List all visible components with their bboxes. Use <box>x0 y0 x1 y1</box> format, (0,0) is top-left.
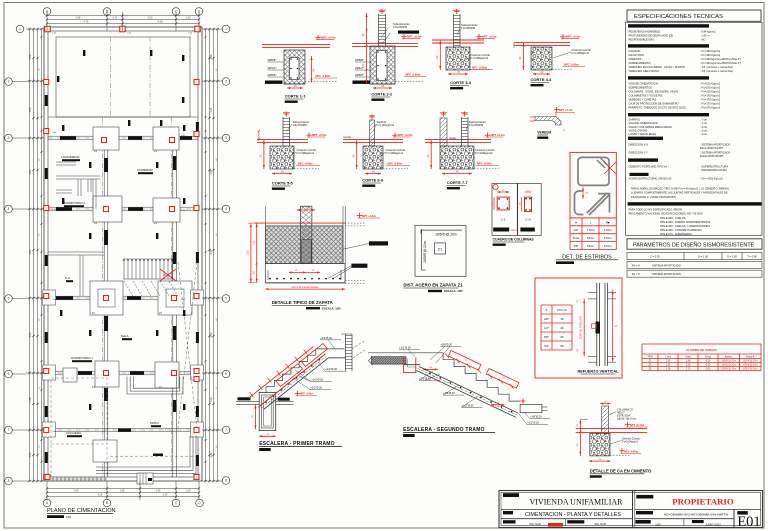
left dimension lines <box>26 28 44 482</box>
svg-text:1.20: 1.20 <box>186 17 191 20</box>
detail ESCALERA SEGUNDO TRAMO <box>368 342 550 437</box>
svg-text:3.60: 3.60 <box>29 249 32 254</box>
svg-text:NFC -0.80m: NFC -0.80m <box>298 162 313 166</box>
svg-text:huella: huella <box>449 137 456 140</box>
svg-text:3/8": 3/8" <box>573 244 578 248</box>
interior partition walls misc <box>48 50 197 484</box>
svg-text:2.85: 2.85 <box>210 169 213 174</box>
svg-text:: SISTEMA APORTICADO: : SISTEMA APORTICADO <box>700 143 730 147</box>
svg-text:: F'c=100 kg/cm2+25%P.M.(Max: : F'c=100 kg/cm2+25%P.M.(Max 3") <box>700 61 741 65</box>
svg-text:E01: E01 <box>737 514 760 530</box>
svg-text:: F'c=100 Kg/cmq: : F'c=100 Kg/cmq <box>700 49 721 53</box>
svg-text:2.0cm: 2.0cm <box>604 228 612 232</box>
svg-text:6: 6 <box>8 372 10 376</box>
svg-text:NFC -0.80m: NFC -0.80m <box>564 63 579 67</box>
svg-text:NFC -0.80m: NFC -0.80m <box>472 66 487 70</box>
svg-text:Acero L: Acero L <box>725 356 734 359</box>
detail DETALLE DE CA EN CIMIENTO <box>576 401 652 477</box>
svg-text:ESPECIFICACIONES TECNICAS: ESPECIFICACIONES TECNICAS <box>634 14 723 20</box>
svg-text:: F'c=175 Kg/cm2: : F'c=175 Kg/cm2 <box>700 101 721 105</box>
svg-text:2.28: 2.28 <box>210 397 213 402</box>
detail VEREDA <box>530 107 575 139</box>
box ESPECIFICACIONES TECNICAS header <box>627 10 761 21</box>
svg-text:NFC -0.80m: NFC -0.80m <box>316 74 331 78</box>
courtyard inner rect <box>48 37 198 117</box>
svg-text:NPT +0.10m: NPT +0.10m <box>630 424 645 427</box>
svg-text:2: 2 <box>8 80 10 84</box>
svg-text:: F'c=100 kg/cm2+30%P.G.(Max: : F'c=100 kg/cm2+30%P.G.(Max 6") <box>700 57 741 61</box>
svg-text:CTO cm: CTO cm <box>557 308 568 312</box>
wall footings small <box>43 290 204 437</box>
svg-text:2Ø5/8": 2Ø5/8" <box>268 58 277 62</box>
svg-text:3.98: 3.98 <box>210 54 213 59</box>
svg-text:+1/2"Ø.20: +1/2"Ø.20 <box>527 421 539 425</box>
svg-text:: INFRAESTRUCTURA: : INFRAESTRUCTURA <box>700 168 727 172</box>
svg-text:NC: NC <box>163 273 167 277</box>
svg-text:3/4": 3/4" <box>544 344 549 348</box>
svg-text:2.28: 2.28 <box>29 397 32 402</box>
svg-text:DORMITORIO 2: DORMITORIO 2 <box>63 201 85 205</box>
svg-text:0.70: 0.70 <box>113 17 118 20</box>
svg-text:3: 3 <box>225 136 227 140</box>
svg-text:TARRAJEO CIELO RASO:: TARRAJEO CIELO RASO: <box>629 69 660 73</box>
svg-text:CORTE 2-2: CORTE 2-2 <box>371 92 393 97</box>
svg-text:1@.05, 4@.10 rto: 1@.05, 4@.10 rto <box>617 418 637 421</box>
room labels <box>61 155 161 437</box>
svg-text:+3/8"Ø.20: +3/8"Ø.20 <box>530 415 542 419</box>
svg-text:CORTE 4-4: CORTE 4-4 <box>531 77 553 82</box>
svg-text:ACERO ESTRUCTURAL GRADO 60: ACERO ESTRUCTURAL GRADO 60 <box>629 177 672 181</box>
svg-text:Z = 0.35: Z = 0.35 <box>650 255 660 259</box>
svg-text:RESISTENCIA ADMISIBLE: RESISTENCIA ADMISIBLE <box>629 30 661 34</box>
svg-text:ING. NAR: ING. NAR <box>594 522 606 526</box>
svg-text:1/4": 1/4" <box>573 228 578 232</box>
svg-text:CORTE 3-3: CORTE 3-3 <box>450 80 472 85</box>
svg-text:NPT +0.1m: NPT +0.1m <box>491 133 506 137</box>
svg-text:: F'c=175 Kg/cm2: : F'c=175 Kg/cm2 <box>700 105 721 109</box>
detail DIST. ACERO EN ZAPATA Z1 <box>403 225 466 293</box>
svg-text:CORTE 7-7: CORTE 7-7 <box>447 180 469 185</box>
svg-text:1/50: 1/50 <box>66 515 72 519</box>
interior wall spine x=174 <box>173 138 177 477</box>
svg-text:4.35: 4.35 <box>29 107 32 112</box>
svg-text:SALA: SALA <box>121 334 129 338</box>
svg-text:JUNIO-2022: JUNIO-2022 <box>705 522 721 526</box>
svg-text:4: 4 <box>8 207 10 211</box>
svg-text:VEREDA: VEREDA <box>537 131 552 135</box>
svg-text:: F'c=175 Kg/cm2: : F'c=175 Kg/cm2 <box>700 97 721 101</box>
svg-text:2.98: 2.98 <box>76 17 81 20</box>
svg-text:DILATACION 1/' (USAR TEKNOP: DILATACION 1/' (USAR TEKNOPORT) <box>631 195 676 199</box>
svg-text:DETALLE TIPICO DE ZAPATA: DETALLE TIPICO DE ZAPATA <box>272 300 334 305</box>
svg-text:+1/2"Ø.20: +1/2"Ø.20 <box>311 378 323 382</box>
svg-text:: 1.50 m: : 1.50 m <box>700 34 709 38</box>
footing detail CORTE 5-5 <box>257 111 327 189</box>
svg-text:DIST. ACERO EN ZAPATA Z1: DIST. ACERO EN ZAPATA Z1 <box>403 283 463 288</box>
svg-text:DETALLE DE CA EN CIMIENTO: DETALLE DE CA EN CIMIENTO <box>590 468 652 473</box>
svg-text:CAJA DE PROTECCION DE SUMI: CAJA DE PROTECCION DE SUMINISTRO <box>629 101 679 105</box>
svg-text:PARAMETROS DE DISEÑO SISMOR: PARAMETROS DE DISEÑO SISMORESISTENTE <box>633 242 755 249</box>
svg-text:3.20: 3.20 <box>163 494 168 497</box>
svg-text:2Ø1/2": 2Ø1/2" <box>268 66 277 70</box>
svg-text:30: 30 <box>560 317 564 321</box>
svg-text:80: 80 <box>560 344 564 348</box>
svg-text:NFC -0.80m: NFC -0.80m <box>388 162 403 166</box>
svg-text:C-A: C-A <box>181 298 185 301</box>
svg-text:2: 2 <box>225 80 227 84</box>
svg-text:Ry = 8: Ry = 8 <box>632 272 640 276</box>
svg-text:C-A: C-A <box>52 131 56 134</box>
svg-text:: F'c=210 Kg/cm2: : F'c=210 Kg/cm2 <box>700 85 721 89</box>
svg-text:F'c=100kg/cm2: F'c=100kg/cm2 <box>471 56 489 60</box>
svg-text:1/2": 1/2" <box>544 326 549 330</box>
svg-text:2.5cm: 2.5cm <box>604 236 612 240</box>
plan title: PLANO DE CIMENTACION <box>47 508 116 519</box>
svg-text:NPT +0.1m: NPT +0.1m <box>559 108 573 112</box>
svg-text:T = 0.90: T = 0.90 <box>747 255 757 259</box>
svg-text:LOSAS Y ESCALERAS: LOSAS Y ESCALERAS <box>629 132 657 136</box>
svg-text:COLUMNETAS Y VIGUETAS: COLUMNETAS Y VIGUETAS <box>629 93 663 97</box>
svg-text:: 0.84 kg/cm2.: : 0.84 kg/cm2. <box>700 30 717 34</box>
svg-text:6mm: 6mm <box>573 236 580 240</box>
svg-text:CORTE 1-1: CORTE 1-1 <box>285 94 307 99</box>
svg-text:U = 1.00: U = 1.00 <box>698 255 708 259</box>
svg-text:COCHERA: COCHERA <box>66 431 81 435</box>
svg-text:+1/2"Ø.20: +1/2"Ø.20 <box>320 336 332 340</box>
svg-text:VIGA DE CIMENTACION: VIGA DE CIMENTACION <box>629 121 658 125</box>
svg-text:7.5cm: 7.5cm <box>587 228 595 232</box>
svg-text:SISTEMA APORTICADO: SISTEMA APORTICADO <box>652 263 681 267</box>
svg-text:: F'c=210 Kg/cm2: : F'c=210 Kg/cm2 <box>700 89 721 93</box>
grid bubbles bottom <box>43 499 203 507</box>
interior horizontal walls <box>48 136 198 432</box>
svg-text:H: H <box>615 324 617 328</box>
svg-text:PROPIETARIO: PROPIETARIO <box>672 497 734 507</box>
svg-text:1:8+25%PM: 1:8+25%PM <box>461 26 475 30</box>
grid bubbles right <box>222 25 230 484</box>
svg-text:1: 1 <box>225 27 227 31</box>
svg-text:NPT +0.0m: NPT +0.0m <box>300 393 314 396</box>
svg-text:CORTE 5-5: CORTE 5-5 <box>272 181 294 186</box>
svg-text:A (m): A (m) <box>685 356 691 359</box>
svg-text:40: 40 <box>560 326 564 330</box>
svg-text:: 1:5 ( cemento + arena fin: : 1:5 ( cemento + arena fina) <box>700 69 733 73</box>
box PARAMETROS DE DISEÑO SISMORESISTENTE <box>627 239 762 277</box>
svg-text:1Ø5/8"@.20m: 1Ø5/8"@.20m <box>435 232 457 236</box>
svg-text:PATIO: PATIO <box>150 421 159 425</box>
svg-text:ESCALERA - PRIMER TRAMO: ESCALERA - PRIMER TRAMO <box>259 441 335 447</box>
svg-text:NFC -0.60m: NFC -0.60m <box>624 450 639 453</box>
grid bubbles top <box>43 8 203 16</box>
svg-text:7: 7 <box>225 428 227 432</box>
svg-text:SOBRECIMIENTO:: SOBRECIMIENTO: <box>629 61 652 65</box>
svg-text:3.00: 3.00 <box>29 332 32 337</box>
svg-text:B: B <box>106 501 108 505</box>
svg-text:ESCALERA - SEGUNDO TRAMO: ESCALERA - SEGUNDO TRAMO <box>403 427 485 433</box>
svg-text:NTE E.050 - SUELOS: NTE E.050 - SUELOS <box>660 216 686 220</box>
svg-text:: F'c=100 Kg/cmq: : F'c=100 Kg/cmq <box>700 53 721 57</box>
svg-text:3: 3 <box>8 136 10 140</box>
svg-text:: 1:5 ( cemento + arena fin: : 1:5 ( cemento + arena fina) <box>700 65 733 69</box>
svg-text:F'c=100kg/cm2: F'c=100kg/cm2 <box>622 441 639 444</box>
footing detail CORTE 3-3 <box>432 9 497 90</box>
svg-text:4Ø5/8: 4Ø5/8 <box>511 230 518 232</box>
svg-text:vereda: vereda <box>343 136 351 139</box>
svg-text:C-A: C-A <box>181 209 185 212</box>
svg-text:NFC -0.80m: NFC -0.80m <box>477 162 492 166</box>
svg-text:NTE E.050 - SUELOS Y CIME: NTE E.050 - SUELOS Y CIMENTACIONES <box>660 224 710 228</box>
outer wall fill marks <box>45 95 199 466</box>
svg-text:1/50: 1/50 <box>655 522 661 526</box>
svg-text:4.75: 4.75 <box>84 21 89 24</box>
svg-text:1.50: 1.50 <box>247 250 250 255</box>
svg-text:3.0cm: 3.0cm <box>604 244 612 248</box>
svg-text:CALIDAD:: CALIDAD: <box>629 49 641 53</box>
svg-text:: 7 cm.: : 7 cm. <box>700 118 708 122</box>
svg-text:2.85: 2.85 <box>29 169 32 174</box>
svg-text:C-A: C-A <box>525 218 530 222</box>
svg-text:5: 5 <box>8 297 10 301</box>
svg-text:DIRECCION Y-Y: DIRECCION Y-Y <box>629 150 649 154</box>
svg-text:C-A: C-A <box>52 430 56 433</box>
svg-text:1.00: 1.00 <box>253 240 256 245</box>
svg-text:5: 5 <box>225 297 227 301</box>
svg-text:PARAPETO, TABIQUES, DUCTO DE: PARAPETO, TABIQUES, DUCTO DE INST. ELEC. <box>629 105 688 109</box>
detail REFUERZO VERTICAL <box>535 278 622 378</box>
svg-text:3.60: 3.60 <box>210 249 213 254</box>
detail ESCALERA PRIMER TRAMO <box>236 334 365 451</box>
svg-text:1Ø5/8"@.20m: 1Ø5/8"@.20m <box>423 241 427 263</box>
svg-text:2Ø5/8": 2Ø5/8" <box>268 73 277 77</box>
svg-text:VIVIENDA UNIFAMILIAR: VIVIENDA UNIFAMILIAR <box>530 497 624 506</box>
svg-text:15cm: 15cm <box>587 244 595 248</box>
svg-text:ESCALA: 1/25: ESCALA: 1/25 <box>322 307 341 311</box>
svg-text:REGLAMENTO NACIONAL DE EDIF: REGLAMENTO NACIONAL DE EDIFICACIONES, RD… <box>629 212 704 216</box>
svg-text:C-A: C-A <box>52 208 56 211</box>
svg-text:- Fy = 4200 Kg/cm2: - Fy = 4200 Kg/cm2 <box>700 177 723 181</box>
svg-text:Barra 05/30=14.8PT: Barra 05/30=14.8PT <box>700 146 724 150</box>
svg-text:NPT +0.0m: NPT +0.0m <box>362 214 376 218</box>
svg-text:CUADRO DE ZAPATA: CUADRO DE ZAPATA <box>686 348 717 352</box>
interior wall spine x=106 <box>104 138 108 477</box>
svg-text:LLENADO COMPLETAMENTE LAS J: LLENADO COMPLETAMENTE LAS JUNTAS VERTICA… <box>631 191 728 195</box>
footing detail CORTE 2-2 <box>352 9 426 101</box>
detail DETALLE TIPICO DE ZAPATA <box>247 206 388 311</box>
svg-text:S = 1.20: S = 1.20 <box>727 255 737 259</box>
svg-text:NPT +0.0m: NPT +0.0m <box>312 133 327 137</box>
svg-text:3/8": 3/8" <box>544 317 549 321</box>
svg-text:Doble 05/30=48.50T: Doble 05/30=48.50T <box>700 154 724 158</box>
svg-text:1.35: 1.35 <box>120 490 125 493</box>
svg-text:+1/2"Ø.20: +1/2"Ø.20 <box>325 367 337 371</box>
svg-text:+3/8"Ø.20: +3/8"Ø.20 <box>443 391 455 395</box>
svg-text:C1: C1 <box>438 248 443 252</box>
svg-text:C-1: C-1 <box>501 218 506 222</box>
svg-text:+1/2"Ø.20: +1/2"Ø.20 <box>310 386 322 390</box>
svg-text:2.00: 2.00 <box>29 452 32 457</box>
svg-text:ZAPATAS: ZAPATAS <box>629 118 641 122</box>
svg-text:PARA TODO LO NO ESPECIFICA: PARA TODO LO NO ESPECIFICADO, REGIR : <box>629 207 684 211</box>
svg-text:SISTEMA APORTICADO: SISTEMA APORTICADO <box>652 272 681 276</box>
svg-text:ancho de zapata variable: ancho de zapata variable <box>292 286 319 289</box>
grid centerlines dash-dot <box>48 37 198 477</box>
svg-text:C-A: C-A <box>188 32 192 35</box>
svg-text:NPT +0.0m: NPT +0.0m <box>407 34 422 38</box>
spec section bars and rows <box>628 24 762 236</box>
svg-text:VIGAS Y COLUMNAS PERALTADAS: VIGAS Y COLUMNAS PERALTADAS <box>629 125 672 129</box>
svg-text:CUADRO DE COLUMNAS: CUADRO DE COLUMNAS <box>493 238 535 242</box>
svg-text:1:8+25%PM: 1:8+25%PM <box>393 25 407 29</box>
svg-text:1.20: 1.20 <box>186 490 191 493</box>
svg-text:F'c=100kg/cm2: F'c=100kg/cm2 <box>572 51 590 55</box>
svg-text:1: 1 <box>19 27 21 31</box>
svg-text:7: 7 <box>8 428 10 432</box>
svg-text:Acero A: Acero A <box>746 356 755 359</box>
zapata footing squares <box>63 127 192 462</box>
grid bubbles left <box>5 25 26 485</box>
svg-text:: SISTEMA APORTICADO: : SISTEMA APORTICADO <box>700 150 730 154</box>
svg-text:2.60: 2.60 <box>148 17 153 20</box>
svg-text:2.43: 2.43 <box>74 490 79 493</box>
svg-text:NFC -0.80m: NFC -0.80m <box>406 73 421 77</box>
svg-text:: NO.: : NO. <box>700 38 706 42</box>
svg-text:MOYOBAMBA NVO MOYOBAMBA SAN MA: MOYOBAMBA NVO MOYOBAMBA SAN MARTIN <box>664 513 728 517</box>
svg-text:NPT +0.0m: NPT +0.0m <box>321 35 336 39</box>
svg-text:1:8+25%PM: 1:8+25%PM <box>469 123 483 127</box>
svg-text:8: 8 <box>225 479 227 483</box>
svg-text:CEMENTO PORTLAND TIPO Iex -: CEMENTO PORTLAND TIPO Iex - <box>629 164 669 168</box>
detail DET. DE ESTRIBOS <box>570 152 616 218</box>
svg-text:C-A: C-A <box>127 32 131 35</box>
svg-text:+1/2"Ø.20: +1/2"Ø.20 <box>399 345 411 349</box>
svg-text:10cm: 10cm <box>587 236 595 240</box>
svg-text:: F'c=210 Kg/cm2: : F'c=210 Kg/cm2 <box>700 81 721 85</box>
svg-text:NPT +0.0m: NPT +0.0m <box>482 34 497 38</box>
svg-text:: F'c=175 Kg/cm2: : F'c=175 Kg/cm2 <box>700 93 721 97</box>
svg-text:VEREDAS Y CUNETAS: VEREDAS Y CUNETAS <box>629 97 657 101</box>
svg-text:R■: R■ <box>606 220 610 224</box>
stair block in plan <box>123 259 178 296</box>
svg-text:COMEDOR: COMEDOR <box>137 168 154 172</box>
svg-text:VIGA DE CIMENTACION:: VIGA DE CIMENTACION: <box>629 81 659 85</box>
top dimension lines <box>46 12 200 31</box>
right dimension lines <box>202 28 222 482</box>
svg-text:B: B <box>106 10 108 14</box>
svg-text:+1/2"Ø.20: +1/2"Ø.20 <box>462 403 474 407</box>
svg-text:2Ø5/8": 2Ø5/8" <box>355 58 364 62</box>
svg-text:4.28: 4.28 <box>158 21 163 24</box>
svg-text:1.43: 1.43 <box>156 490 161 493</box>
svg-text:COLUMNAS , VIGAS, ESCALERA, VI: COLUMNAS , VIGAS, ESCALERA, VIGAS <box>629 89 679 93</box>
svg-text:PLANO DE CIMENTACION: PLANO DE CIMENTACION <box>47 508 116 514</box>
svg-text:2Ø5/8": 2Ø5/8" <box>355 73 364 77</box>
title block texts <box>503 493 761 530</box>
svg-text:REFUERZO VERTICAL: REFUERZO VERTICAL <box>578 370 620 374</box>
table stirrup dims <box>556 218 618 264</box>
svg-text:C-A: C-A <box>181 134 185 137</box>
svg-text:CIMENTACION - PLANTA Y DETALLE: CIMENTACION - PLANTA Y DETALLES <box>525 512 621 518</box>
svg-text:C-A: C-A <box>52 32 56 35</box>
svg-text:: 7 cm.: : 7 cm. <box>700 121 708 125</box>
svg-text:3.00: 3.00 <box>210 332 213 337</box>
svg-text:NPT +0.0m: NPT +0.0m <box>398 133 413 137</box>
svg-text:2.00: 2.00 <box>210 452 213 457</box>
bottom dimension lines <box>46 481 200 500</box>
footing detail CORTE 1-1 <box>262 35 337 103</box>
column markers red squares <box>44 26 201 479</box>
svg-text:NPT +0.0m: NPT +0.0m <box>566 35 581 39</box>
footing detail CORTE 7-7 <box>425 111 505 189</box>
svg-text:ZONA DE TRASLAPE: ZONA DE TRASLAPE <box>580 315 583 339</box>
svg-text:60: 60 <box>560 335 564 339</box>
svg-text:: 2 cm.: : 2 cm. <box>700 128 708 132</box>
svg-text:3.98: 3.98 <box>29 54 32 59</box>
table CUADRO DE COLUMNAS <box>492 183 541 246</box>
svg-text:RESPONSABLE EHS:: RESPONSABLE EHS: <box>629 38 655 42</box>
svg-text:Ro = 8: Ro = 8 <box>632 263 640 267</box>
svg-text:ESCALA: 1/25: ESCALA: 1/25 <box>444 289 463 293</box>
svg-text:4: 4 <box>225 207 227 211</box>
svg-text:: 4 cm.: : 4 cm. <box>700 125 708 129</box>
svg-text:LAVANDERIA: LAVANDERIA <box>61 155 80 159</box>
footing detail CORTE 4-4 <box>514 34 592 86</box>
svg-text:F'c=100kg/cm2: F'c=100kg/cm2 <box>475 151 493 155</box>
svg-text:4.35: 4.35 <box>210 107 213 112</box>
svg-text:F'c=100kg/cm2: F'c=100kg/cm2 <box>297 151 315 155</box>
svg-text:F'c=140kg/cm2: F'c=140kg/cm2 <box>377 123 395 127</box>
svg-text:PARA LADRILLOS MACIZO TIPO: PARA LADRILLOS MACIZO TIPO IV DE F'm = 4… <box>631 186 729 190</box>
svg-text:DORMITORIO 1: DORMITORIO 1 <box>71 356 93 360</box>
svg-text:+3/8"Ø.20: +3/8"Ø.20 <box>440 342 452 346</box>
svg-text:SOBRECIMIENTOS: SOBRECIMIENTOS <box>629 85 653 89</box>
table CUADRO DE ZAPATA <box>642 344 761 371</box>
svg-text:ING. NAR: ING. NAR <box>529 522 541 526</box>
svg-text:8: 8 <box>8 479 10 483</box>
svg-text:6: 6 <box>225 372 227 376</box>
svg-text:VIGAS CHATAS: VIGAS CHATAS <box>629 128 648 132</box>
svg-text:S.H.: S.H. <box>65 276 71 280</box>
svg-text:C-A: C-A <box>52 298 56 301</box>
svg-text:DET. DE ESTRIBOS: DET. DE ESTRIBOS <box>562 254 612 260</box>
svg-text:TARRAJEO EN COLUMNAS , VIGAS: TARRAJEO EN COLUMNAS , VIGAS Y MUROS <box>629 65 685 69</box>
svg-text:CORTE 6-6: CORTE 6-6 <box>362 178 384 183</box>
svg-text:4.28: 4.28 <box>98 494 103 497</box>
svg-text:DIRECCION X-X: DIRECCION X-X <box>629 143 649 147</box>
svg-text:NTE E.060 - CONCRETO ARMAD: NTE E.060 - CONCRETO ARMADO <box>660 228 702 232</box>
svg-text:5/8": 5/8" <box>544 335 549 339</box>
svg-text:F'c=100kg/cm2: F'c=100kg/cm2 <box>386 151 404 155</box>
box especificaciones body <box>626 22 762 235</box>
title block <box>499 491 763 528</box>
svg-text:PROFUNDIDAD DE DESPLANTE (D: PROFUNDIDAD DE DESPLANTE (Df) <box>629 34 674 38</box>
svg-text:: 2 cm.: : 2 cm. <box>700 132 708 136</box>
svg-text:: SUPERESTRUCTURA: : SUPERESTRUCTURA <box>700 164 728 168</box>
svg-text:FALSO PISO: FALSO PISO <box>629 53 644 57</box>
footing detail CORTE 6-6 <box>343 114 413 186</box>
svg-text:CIMIENTO:: CIMIENTO: <box>629 57 643 61</box>
foundation plan outer wall <box>44 27 202 481</box>
svg-text:1:8+25%PM: 1:8+25%PM <box>293 123 307 127</box>
